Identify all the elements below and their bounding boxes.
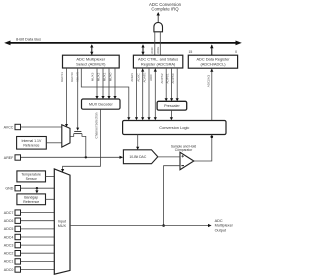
wire MUX0 (114, 68, 116, 97)
svg-text:ADPS1: ADPS1 (165, 73, 169, 83)
wire ADC[9:0] (211, 69, 213, 121)
GND junction (36, 187, 38, 189)
register ADCSRA (133, 55, 182, 68)
svg-text:8-Bit Data Bus: 8-Bit Data Bus (16, 37, 41, 42)
wire ADIF (154, 68, 156, 117)
svg-text:Reference: Reference (23, 143, 39, 147)
comparator (180, 152, 194, 169)
svg-text:ADC2: ADC2 (4, 252, 14, 256)
comparator minus input wire (164, 166, 180, 226)
svg-text:ADEN: ADEN (130, 73, 134, 82)
mux output wire (70, 225, 209, 227)
svg-text:REFS1: REFS1 (60, 72, 64, 82)
svg-text:Channel Selection: Channel Selection (94, 112, 98, 138)
wire ADSC (142, 68, 144, 117)
gate input wire ADIF (154, 32, 156, 55)
wire MUX1 (108, 68, 110, 97)
GND wire (21, 187, 55, 189)
internal reference block (17, 137, 47, 150)
AREF net wire to DAC (21, 156, 123, 158)
wire ADEN (136, 68, 138, 118)
bus to ADMUX bidirectional arrow (91, 45, 93, 55)
prescaler to conversion logic wire (170, 110, 172, 118)
comparator plus sign (181, 155, 184, 158)
svg-text:ADATE: ADATE (143, 72, 147, 82)
8-bit data bus (8, 42, 238, 44)
junction on mux output (162, 224, 165, 227)
ADC data register to bus arrow (211, 45, 213, 55)
svg-text:ADC0: ADC0 (4, 268, 14, 272)
wire MUX2 (102, 68, 104, 97)
svg-text:Input: Input (58, 219, 66, 223)
bandgap output wire (46, 198, 55, 200)
svg-text:ADC5: ADC5 (4, 227, 14, 231)
svg-text:Register (ADCSRA): Register (ADCSRA) (141, 61, 176, 66)
conversion logic block (123, 121, 226, 135)
register ADCH/ADCL (188, 55, 237, 68)
svg-text:MUX1: MUX1 (102, 72, 106, 81)
svg-text:ADC6: ADC6 (4, 219, 14, 223)
10-bit DAC (123, 150, 157, 164)
svg-text:Conversion Logic: Conversion Logic (159, 125, 189, 130)
wire ADPS0 (176, 68, 178, 99)
comparator minus sign (181, 165, 184, 167)
svg-text:ADPS2: ADPS2 (160, 73, 164, 83)
svg-text:MUX2: MUX2 (96, 72, 100, 81)
channel selection wire (63, 109, 101, 169)
wire MUX3 (96, 68, 98, 97)
svg-text:MUX Decoder: MUX Decoder (89, 103, 114, 107)
svg-text:MUX3: MUX3 (90, 72, 94, 81)
temperature sensor block (17, 171, 46, 182)
svg-text:ADC7: ADC7 (4, 211, 14, 215)
wire ADLAR (81, 68, 129, 118)
svg-text:10-Bit DAC: 10-Bit DAC (129, 155, 147, 159)
temperature sensor output wire (46, 175, 55, 177)
wire ADPS2 (165, 68, 167, 99)
svg-text:ADIF: ADIF (150, 47, 154, 54)
gate input wire ADIE (159, 32, 161, 55)
svg-text:ADC[9:0]: ADC[9:0] (206, 75, 210, 88)
interrupt AND gate (154, 22, 163, 31)
svg-text:(ADCH/ADCL): (ADCH/ADCL) (200, 61, 226, 66)
AVCC wire (21, 126, 62, 128)
svg-text:Multiplexer: Multiplexer (215, 224, 234, 228)
bandgap reference block (17, 194, 46, 205)
svg-text:REFS0: REFS0 (70, 72, 74, 82)
svg-text:Complete IRQ: Complete IRQ (151, 7, 179, 12)
svg-text:ADC: ADC (215, 219, 223, 223)
comparator output to conversion logic wire (194, 135, 212, 162)
svg-text:0: 0 (235, 50, 237, 54)
svg-text:MUX: MUX (58, 224, 67, 228)
svg-text:Prescaler: Prescaler (164, 104, 180, 108)
wire REFS1 (66, 68, 68, 125)
register ADMUX (63, 55, 120, 68)
wire REFS0 (77, 68, 79, 128)
wire ADATE (148, 68, 150, 118)
svg-text:ADIF: ADIF (149, 74, 153, 81)
junction (211, 136, 214, 139)
svg-text:ADPS0: ADPS0 (171, 73, 175, 83)
pass transistor (74, 131, 81, 133)
svg-text:Select (ADMUX): Select (ADMUX) (76, 61, 106, 66)
svg-text:ADC4: ADC4 (4, 235, 14, 239)
svg-text:Comparator: Comparator (175, 148, 193, 152)
svg-text:Temperature: Temperature (21, 173, 41, 177)
conversion logic to DAC wire (137, 135, 139, 148)
svg-text:AREF: AREF (4, 156, 14, 160)
svg-text:ADSC: ADSC (136, 72, 140, 81)
internal reference output wire (46, 142, 62, 144)
svg-text:15: 15 (189, 50, 193, 54)
MUX decoder block (82, 99, 121, 109)
svg-text:Sensor: Sensor (26, 177, 38, 181)
svg-text:Bandgap: Bandgap (24, 196, 38, 200)
svg-text:Reference: Reference (23, 200, 39, 204)
svg-text:AVCC: AVCC (4, 125, 14, 129)
svg-text:Internal 1.1V: Internal 1.1V (21, 139, 42, 143)
prescaler block (157, 101, 187, 110)
bus to ADCSRA bidirectional arrow (142, 45, 144, 55)
svg-text:ADLAR: ADLAR (76, 71, 80, 82)
wire ADPS1 (171, 68, 173, 99)
svg-text:MUX0: MUX0 (108, 72, 112, 81)
svg-text:ADC1: ADC1 (4, 260, 14, 264)
input mux trapezoid (54, 169, 70, 274)
IRQ gate output wire (157, 15, 159, 23)
junction aref/mosfet (85, 156, 87, 158)
GND to bandgap arrow (36, 188, 38, 191)
svg-text:ADC3: ADC3 (4, 243, 14, 247)
DAC to comparator plus input wire (158, 156, 180, 158)
reference mux trapezoid (62, 125, 70, 147)
svg-text:ADIE: ADIE (156, 47, 160, 54)
svg-text:GND: GND (5, 186, 13, 190)
svg-text:Output: Output (215, 228, 227, 232)
